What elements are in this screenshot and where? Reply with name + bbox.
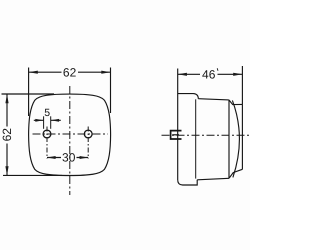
mounting hole left	[43, 130, 51, 138]
prime tick after 46	[216, 68, 219, 71]
side view lens front rim	[241, 104, 243, 169]
arrowhead dim30 left (points left)	[47, 156, 56, 159]
arrowhead dim46 left	[178, 73, 187, 76]
arrowhead 62-left bottom	[5, 166, 8, 175]
side view lens joint line	[228, 100, 230, 178]
dimension 62 left: dimension line	[6, 94, 8, 175]
arrowhead 62-left top	[5, 94, 8, 103]
front view horizontal centerline	[33, 133, 109, 135]
side view housing/plate joint line	[195, 99, 197, 178]
svg-text:5: 5	[44, 107, 50, 119]
mounting hole right	[84, 130, 92, 138]
svg-text:62: 62	[63, 65, 77, 79]
side view housing top edge	[198, 99, 229, 100]
side view top ledge	[178, 94, 199, 99]
arrowhead 62-top right	[101, 71, 110, 74]
dimension 62 top: dimension line	[29, 71, 111, 73]
front view vertical centerline	[69, 86, 71, 195]
side view lens top bevel	[229, 100, 243, 105]
front view lamp outline	[29, 94, 111, 175]
svg-text:30: 30	[62, 151, 76, 165]
dimension 62 top: extension line right	[110, 68, 112, 114]
side view lens surface arc	[232, 100, 239, 177]
side view centerline	[162, 134, 250, 136]
dimension 5: arrow tails	[34, 119, 61, 121]
dimension 46: dimension line	[178, 73, 243, 75]
side view housing bottom edge	[197, 178, 229, 180]
side view back plate bottom corner and foot	[178, 180, 198, 185]
arrowhead dim30 right (points right)	[80, 156, 89, 159]
dimension 62 top: extension line left	[28, 68, 30, 117]
dimension 5: extension line left	[43, 116, 45, 129]
svg-text:62: 62	[0, 128, 14, 142]
arrowhead dim5 right (points left)	[51, 119, 59, 122]
dimension 30: dimension line	[47, 157, 88, 159]
side view lens bottom bevel	[229, 169, 242, 178]
arrowhead 62-top left	[29, 71, 38, 74]
arrowhead dim5 left (points right)	[35, 119, 43, 122]
dimension 62 left: extension line bottom	[3, 174, 62, 176]
terminal stud outline	[171, 131, 182, 139]
terminal stud inner line	[172, 134, 179, 136]
right hole vertical centerline	[87, 127, 89, 159]
side view back plate line	[177, 69, 179, 181]
arrowhead dim46 right	[233, 73, 242, 76]
dimension 46: extension line right	[241, 66, 243, 104]
dimension 62 left: extension line top	[2, 93, 55, 95]
left hole vertical centerline	[46, 127, 48, 159]
dimension 5: extension line right	[50, 116, 52, 129]
svg-text:46: 46	[202, 67, 216, 81]
